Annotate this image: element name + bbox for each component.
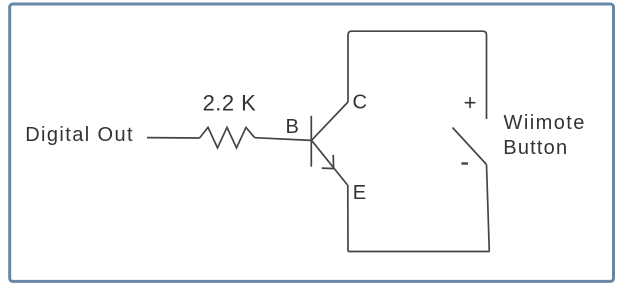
wire: [255, 138, 311, 141]
wire: [348, 31, 352, 102]
wire: [483, 31, 487, 119]
svg-text:B: B: [286, 116, 299, 138]
transistor Q1: [311, 102, 348, 185]
svg-text:Wiimote: Wiimote: [504, 112, 586, 134]
svg-text:Digital Out: Digital Out: [25, 124, 134, 146]
wire: [348, 251, 490, 253]
wire: [352, 30, 483, 32]
label -: [461, 162, 468, 164]
svg-text:E: E: [353, 182, 366, 204]
wire: [147, 137, 200, 139]
resistor R1: [200, 127, 255, 147]
svg-text:+: +: [464, 90, 477, 115]
svg-text:2.2 K: 2.2 K: [203, 90, 257, 115]
wire: [487, 165, 490, 252]
svg-text:C: C: [353, 91, 367, 113]
svg-text:Button: Button: [503, 137, 568, 159]
wire: [347, 185, 349, 252]
switch S1 Wiimote button: [453, 128, 487, 165]
